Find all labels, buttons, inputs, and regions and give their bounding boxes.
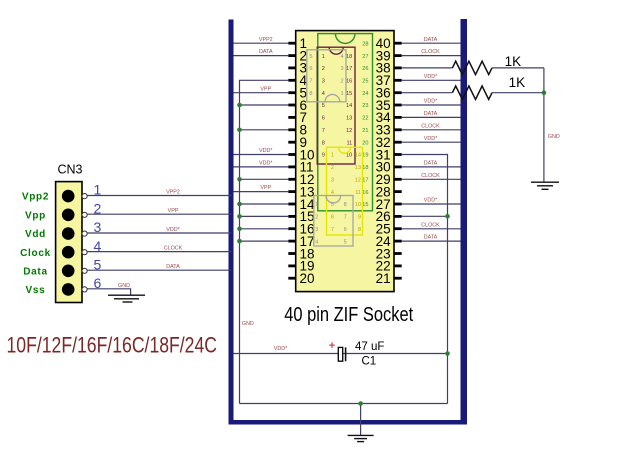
svg-text:26: 26: [362, 66, 368, 72]
wire socket pin 37 to bus, net VDD*: [402, 79, 461, 81]
connector CN3 pin 4 contact: [62, 246, 75, 259]
svg-text:4: 4: [322, 91, 325, 97]
socket pin 3 stub: [288, 67, 296, 70]
svg-text:8: 8: [309, 91, 312, 97]
wire bus to socket pin 11, net VDD*: [234, 166, 289, 168]
junction dot capacitor wire to GND bus: [445, 351, 450, 356]
40 pin ZIF socket U1 body: [296, 31, 394, 292]
socket pin 5 stub: [288, 91, 296, 94]
wire socket pin 32 to bus, net VDD*: [402, 141, 461, 143]
svg-text:8: 8: [344, 202, 347, 208]
wire socket pin 29 to bus, net CLOCK: [402, 178, 461, 180]
svg-text:Clock: Clock: [20, 248, 51, 259]
svg-text:13: 13: [355, 165, 361, 171]
socket pin 29 stub: [394, 178, 402, 181]
svg-text:GND: GND: [548, 134, 560, 140]
socket pin 33 stub: [394, 128, 402, 131]
svg-text:7: 7: [322, 128, 325, 134]
svg-text:5: 5: [322, 103, 325, 109]
svg-text:Vss: Vss: [26, 285, 46, 296]
svg-text:24: 24: [362, 91, 368, 97]
socket pin 2 stub: [288, 54, 296, 57]
wire socket pin 27 to bus, net VDD*: [402, 203, 461, 205]
wire VDD* rail with capacitor C1: [234, 353, 448, 355]
svg-text:VDD*: VDD*: [424, 74, 438, 80]
svg-text:6: 6: [331, 215, 334, 221]
socket pin 1 stub: [288, 42, 296, 45]
wire socket pin 40 to bus, net DATA: [402, 42, 461, 44]
svg-text:12: 12: [355, 178, 361, 184]
svg-text:1K: 1K: [505, 54, 522, 69]
svg-text:23: 23: [362, 103, 368, 109]
svg-text:CLOCK: CLOCK: [421, 173, 440, 179]
socket pin 28 stub: [394, 190, 402, 193]
svg-text:1: 1: [315, 202, 318, 208]
svg-text:9: 9: [322, 153, 325, 159]
wire CN3 pin 5 to bus bar, net DATA: [87, 269, 232, 271]
svg-text:22: 22: [362, 116, 368, 122]
GND bus vertical wire (right): [402, 155, 448, 404]
socket pin 38 stub: [394, 67, 402, 70]
connector CN3 pin 2 contact: [62, 209, 75, 222]
socket pin 40 stub: [394, 42, 402, 45]
junction dot pin 17: [237, 239, 242, 244]
svg-text:16: 16: [346, 79, 352, 85]
svg-text:DATA: DATA: [424, 111, 438, 117]
socket pin 31 stub: [394, 153, 402, 156]
svg-text:DATA: DATA: [424, 37, 438, 43]
svg-text:1K: 1K: [509, 75, 526, 90]
svg-text:10: 10: [346, 153, 352, 159]
svg-text:15: 15: [346, 91, 352, 97]
socket pin 35 stub: [394, 104, 402, 107]
wire resistor R2 to GND node: [492, 92, 544, 94]
wire socket pin 24 to bus, net DATA: [402, 240, 461, 242]
connector CN3 pin 6 contact: [62, 283, 75, 296]
socket pin 9 stub: [288, 141, 296, 144]
svg-text:VPP: VPP: [168, 208, 179, 214]
connector CN3 pin 5 contact: [62, 265, 75, 278]
svg-text:14: 14: [355, 153, 361, 159]
svg-text:VDD*: VDD*: [424, 99, 438, 105]
svg-text:19: 19: [362, 153, 368, 159]
wire bus to socket pin 13, net VPP: [234, 191, 289, 193]
wire socket pin 33 to bus, net CLOCK: [402, 129, 461, 131]
14-pin DIP outline (yellow): [327, 147, 363, 235]
svg-text:21: 21: [362, 128, 368, 134]
svg-text:VDD*: VDD*: [166, 227, 180, 233]
wire socket pin 30 to bus, net DATA: [402, 166, 461, 168]
svg-text:Vdd: Vdd: [25, 229, 46, 240]
svg-text:16: 16: [362, 190, 368, 196]
socket pin 24 stub: [394, 240, 402, 243]
svg-text:40 pin ZIF Socket: 40 pin ZIF Socket: [284, 304, 413, 326]
svg-text:VDD*: VDD*: [259, 161, 273, 167]
svg-text:Vpp2: Vpp2: [22, 192, 49, 203]
svg-text:18: 18: [362, 165, 368, 171]
junction dot pin 8: [237, 128, 242, 133]
svg-text:1: 1: [340, 91, 343, 97]
28-pin DIP outline (green): [318, 34, 373, 211]
ground symbol at CN3 pin 6: [108, 295, 145, 302]
svg-text:GND: GND: [118, 283, 130, 289]
svg-text:VPP2: VPP2: [166, 189, 180, 195]
wire GND bus to socket pin 26: [402, 215, 448, 217]
svg-text:6: 6: [309, 66, 312, 72]
socket pin 26 stub: [394, 215, 402, 218]
svg-text:3: 3: [331, 178, 334, 184]
junction dot pin 15: [237, 214, 242, 219]
socket pin 20 stub: [288, 277, 296, 280]
svg-text:VDD*: VDD*: [259, 148, 273, 154]
svg-text:CLOCK: CLOCK: [421, 222, 440, 228]
wire CN3 pin 2 to bus bar, net VPP: [87, 213, 232, 215]
ground symbol bottom: [348, 435, 374, 441]
socket pin 19 stub: [288, 265, 296, 268]
svg-text:8: 8: [358, 227, 361, 233]
svg-text:Vpp: Vpp: [25, 210, 46, 221]
wire GND bus to socket pin 14: [240, 203, 289, 205]
wire socket pin 25 to bus, net CLOCK: [402, 228, 461, 230]
svg-text:5: 5: [344, 239, 347, 245]
junction dot resistors: [542, 90, 547, 95]
svg-text:3: 3: [340, 66, 343, 72]
wire bus to socket pin 5, net VPP: [234, 92, 289, 94]
svg-text:6: 6: [344, 227, 347, 233]
wire bus to socket pin 2, net DATA: [234, 55, 289, 57]
svg-text:C1: C1: [362, 355, 377, 367]
svg-text:28: 28: [362, 41, 368, 47]
wire joining resistors to ground: [543, 68, 545, 182]
svg-text:7: 7: [331, 227, 334, 233]
wire CN3 pin 6 to ground: [87, 289, 131, 295]
svg-text:3: 3: [315, 227, 318, 233]
svg-text:12: 12: [346, 128, 352, 134]
svg-text:VDD*: VDD*: [274, 346, 288, 352]
svg-text:1: 1: [322, 54, 325, 60]
wire CN3 pin 4 to bus bar, net CLOCK: [87, 251, 232, 253]
capacitor C1 plates: [338, 347, 342, 361]
socket pin 8 stub: [288, 128, 296, 131]
svg-text:13: 13: [346, 116, 352, 122]
junction dot pin 12: [237, 177, 242, 182]
junction dot bottom ground: [358, 401, 363, 406]
svg-text:1: 1: [331, 153, 334, 159]
svg-text:11: 11: [346, 140, 352, 146]
resistor R1 1K: [452, 61, 492, 74]
svg-text:DATA: DATA: [424, 161, 438, 167]
svg-text:CLOCK: CLOCK: [421, 123, 440, 129]
svg-text:10: 10: [355, 202, 361, 208]
wire socket pin 34 to bus, net DATA: [402, 116, 461, 118]
wire socket pin 39 to bus, net CLOCK: [402, 55, 461, 57]
svg-text:17: 17: [362, 178, 368, 184]
socket pin 14 stub: [288, 203, 296, 206]
svg-text:4: 4: [340, 54, 343, 60]
svg-text:DATA: DATA: [424, 235, 438, 241]
socket pin 21 stub: [394, 277, 402, 280]
wire GND bus to socket pin 15: [240, 215, 289, 217]
svg-text:6: 6: [322, 116, 325, 122]
svg-text:VPP: VPP: [260, 185, 271, 191]
socket pin 13 stub: [288, 190, 296, 193]
8-pin DIP outline bottom (gray): [314, 196, 353, 247]
socket pin 37 stub: [394, 79, 402, 82]
socket pin 23 stub: [394, 252, 402, 255]
wire GND bus to socket pin 6: [240, 104, 289, 106]
svg-text:15: 15: [362, 202, 368, 208]
connector CN3 body: [56, 182, 82, 303]
resistor R2 1K: [452, 86, 492, 99]
GND bus vertical wire (left): [240, 80, 289, 403]
wire GND bus to socket pin 17: [240, 240, 289, 242]
socket pin 10 stub: [288, 153, 296, 156]
wire CN3 pin 3 to bus bar, net VDD*: [87, 232, 232, 234]
socket pin 39 stub: [394, 54, 402, 57]
socket pin 25 stub: [394, 227, 402, 230]
socket pin 11 stub: [288, 166, 296, 169]
svg-text:10F/12F/16F/16C/18F/24C: 10F/12F/16F/16C/18F/24C: [7, 332, 218, 357]
wire GND bus to socket pin 8: [240, 129, 289, 131]
svg-text:Data: Data: [23, 266, 47, 277]
svg-text:2: 2: [322, 66, 325, 72]
junction dot pin 16: [237, 227, 242, 232]
svg-text:18: 18: [346, 54, 352, 60]
socket pin 17 stub: [288, 240, 296, 243]
bottom thick navy bar: [229, 420, 468, 425]
wire socket pin 35 to bus, net VDD*: [402, 104, 461, 106]
svg-text:7: 7: [309, 79, 312, 85]
GND bus bottom horizontal wire: [240, 403, 448, 405]
svg-text:4: 4: [315, 239, 318, 245]
svg-text:2: 2: [315, 215, 318, 221]
socket pin 22 stub: [394, 265, 402, 268]
power bus bar right (thick navy vertical): [461, 19, 468, 425]
wire resistor R1 to GND node: [492, 67, 544, 69]
svg-text:20: 20: [300, 271, 315, 286]
wire socket pin 36 to resistor: [402, 92, 453, 94]
wire CN3 pin 1 to bus bar, net VPP2: [87, 195, 232, 197]
socket pin 27 stub: [394, 203, 402, 206]
socket pin 6 stub: [288, 104, 296, 107]
svg-text:7: 7: [344, 215, 347, 221]
svg-text:11: 11: [355, 190, 361, 196]
svg-text:5: 5: [309, 54, 312, 60]
svg-text:2: 2: [340, 79, 343, 85]
svg-text:+: +: [329, 340, 335, 352]
svg-text:DATA: DATA: [166, 264, 180, 270]
svg-text:3: 3: [322, 79, 325, 85]
svg-text:40: 40: [376, 36, 391, 51]
svg-text:GND: GND: [242, 321, 254, 327]
wire socket pin 38 to resistor: [402, 67, 453, 69]
svg-text:25: 25: [362, 79, 368, 85]
8-pin DIP outline top (gray, inverted): [307, 50, 346, 102]
socket pin 30 stub: [394, 166, 402, 169]
socket pin 32 stub: [394, 141, 402, 144]
svg-text:VPP: VPP: [260, 86, 271, 92]
wire GND bus to socket pin 16: [240, 228, 289, 230]
socket pin 18 stub: [288, 252, 296, 255]
socket pin 12 stub: [288, 178, 296, 181]
junction dot pin 26: [445, 214, 450, 219]
svg-text:8: 8: [322, 140, 325, 146]
connector CN3 pin 1 contact: [62, 190, 75, 203]
svg-text:2: 2: [331, 165, 334, 171]
junction dot pin 6: [237, 103, 242, 108]
svg-text:DATA: DATA: [259, 49, 273, 55]
svg-text:27: 27: [362, 54, 368, 60]
socket pin 7 stub: [288, 116, 296, 119]
connector CN3 pin 3 contact: [62, 227, 75, 240]
power bus bar left (thick navy vertical): [229, 20, 234, 425]
svg-text:CN3: CN3: [58, 163, 83, 177]
wire GND bus to bottom ground: [360, 404, 362, 435]
svg-text:9: 9: [358, 215, 361, 221]
socket pin 34 stub: [394, 116, 402, 119]
svg-text:VDD*: VDD*: [424, 136, 438, 142]
svg-text:47 uF: 47 uF: [355, 341, 384, 353]
socket pin 4 stub: [288, 79, 296, 82]
svg-text:CLOCK: CLOCK: [164, 245, 183, 251]
wire bus to socket pin 10, net VDD*: [234, 154, 289, 156]
svg-text:17: 17: [346, 66, 352, 72]
junction dot pin 14: [237, 202, 242, 207]
svg-text:20: 20: [362, 140, 368, 146]
wire bus to socket pin 1, net VPP2: [234, 42, 289, 44]
svg-text:CLOCK: CLOCK: [421, 49, 440, 55]
wire GND bus to socket pin 12: [240, 178, 289, 180]
svg-text:14: 14: [346, 103, 352, 109]
ground symbol right: [531, 182, 559, 189]
18-pin DIP outline (maroon): [317, 47, 355, 164]
socket pin 15 stub: [288, 215, 296, 218]
svg-text:VDD*: VDD*: [424, 198, 438, 204]
svg-text:VPP2: VPP2: [259, 37, 273, 43]
socket pin 36 stub: [394, 91, 402, 94]
socket pin 16 stub: [288, 227, 296, 230]
